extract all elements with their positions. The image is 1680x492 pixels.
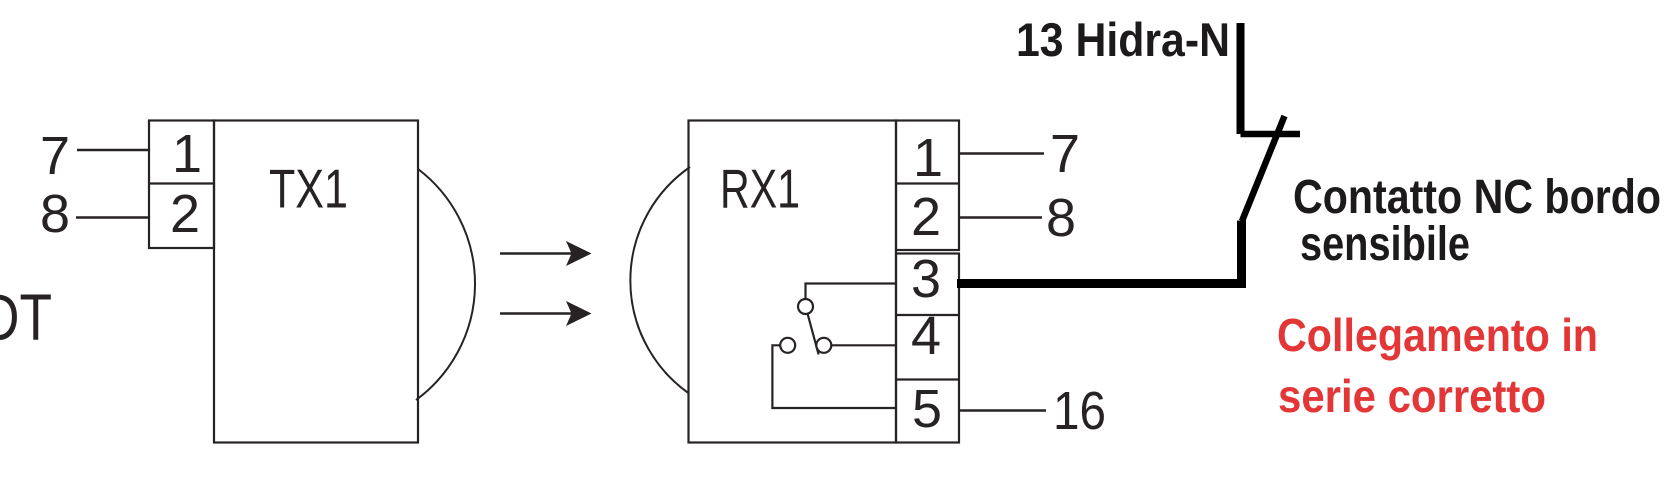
svg-text:4: 4	[911, 306, 941, 366]
wire node7 to TX terminal 1	[77, 149, 149, 151]
contact fixed terminal foot	[1241, 131, 1301, 138]
relay contact: wire from terminal 3 to pivot	[806, 284, 897, 300]
wire node8 to TX terminal 2	[76, 216, 149, 218]
wire from 13 Hidra-N down to contact	[1237, 23, 1245, 134]
RX terminal block A (terminals 1-2)	[896, 121, 959, 251]
wire RX terminal 1 to node 7	[959, 152, 1044, 154]
svg-text:7: 7	[1050, 124, 1080, 184]
RX terminal block B (terminals 3-5)	[896, 254, 959, 443]
relay contact movable arm	[808, 314, 819, 355]
svg-text:13 Hidra-N: 13 Hidra-N	[1016, 13, 1230, 66]
svg-text:1: 1	[172, 124, 202, 184]
svg-text:5: 5	[912, 379, 942, 439]
transmitter TX1 body	[214, 121, 418, 443]
receiver RX1 body	[689, 121, 897, 443]
contact NC movable arm (bordo sensibile)	[1242, 116, 1285, 221]
svg-text:serie corretto: serie corretto	[1278, 370, 1546, 422]
relay contact pivot circle (common, terminal 3)	[798, 299, 813, 314]
relay contact circle (terminal 4 side)	[816, 338, 831, 353]
svg-text:16: 16	[1053, 381, 1106, 441]
svg-text:2: 2	[170, 184, 200, 244]
IR beam arrow 1	[500, 241, 592, 266]
relay contact circle (terminal 5 side)	[780, 338, 795, 353]
svg-text:7: 7	[40, 126, 70, 186]
IR beam arrow 2	[500, 301, 592, 326]
svg-text:sensibile: sensibile	[1300, 218, 1470, 271]
wire contact to terminal 5	[772, 345, 896, 408]
wire RX terminal 2 to node 8	[959, 216, 1042, 218]
wire contact to terminal 4	[831, 344, 896, 346]
svg-text:2: 2	[911, 187, 941, 247]
svg-text:8: 8	[40, 184, 70, 244]
TX terminal block (terminals 1-2)	[149, 121, 214, 249]
wire RX terminal 5 to node 16	[959, 409, 1046, 411]
svg-text:TX1: TX1	[269, 158, 348, 220]
RX1 lens arc	[630, 167, 690, 394]
svg-text:Contatto NC bordo: Contatto NC bordo	[1293, 171, 1661, 224]
thick wire from RX terminal 3 to series contact	[957, 221, 1242, 284]
svg-text:8: 8	[1046, 188, 1076, 248]
svg-text:DT: DT	[0, 280, 52, 354]
TX1 lens arc	[416, 169, 475, 400]
svg-text:3: 3	[911, 249, 941, 309]
svg-text:RX1: RX1	[720, 158, 800, 220]
svg-text:1: 1	[913, 128, 943, 188]
svg-text:Collegamento in: Collegamento in	[1277, 309, 1598, 361]
